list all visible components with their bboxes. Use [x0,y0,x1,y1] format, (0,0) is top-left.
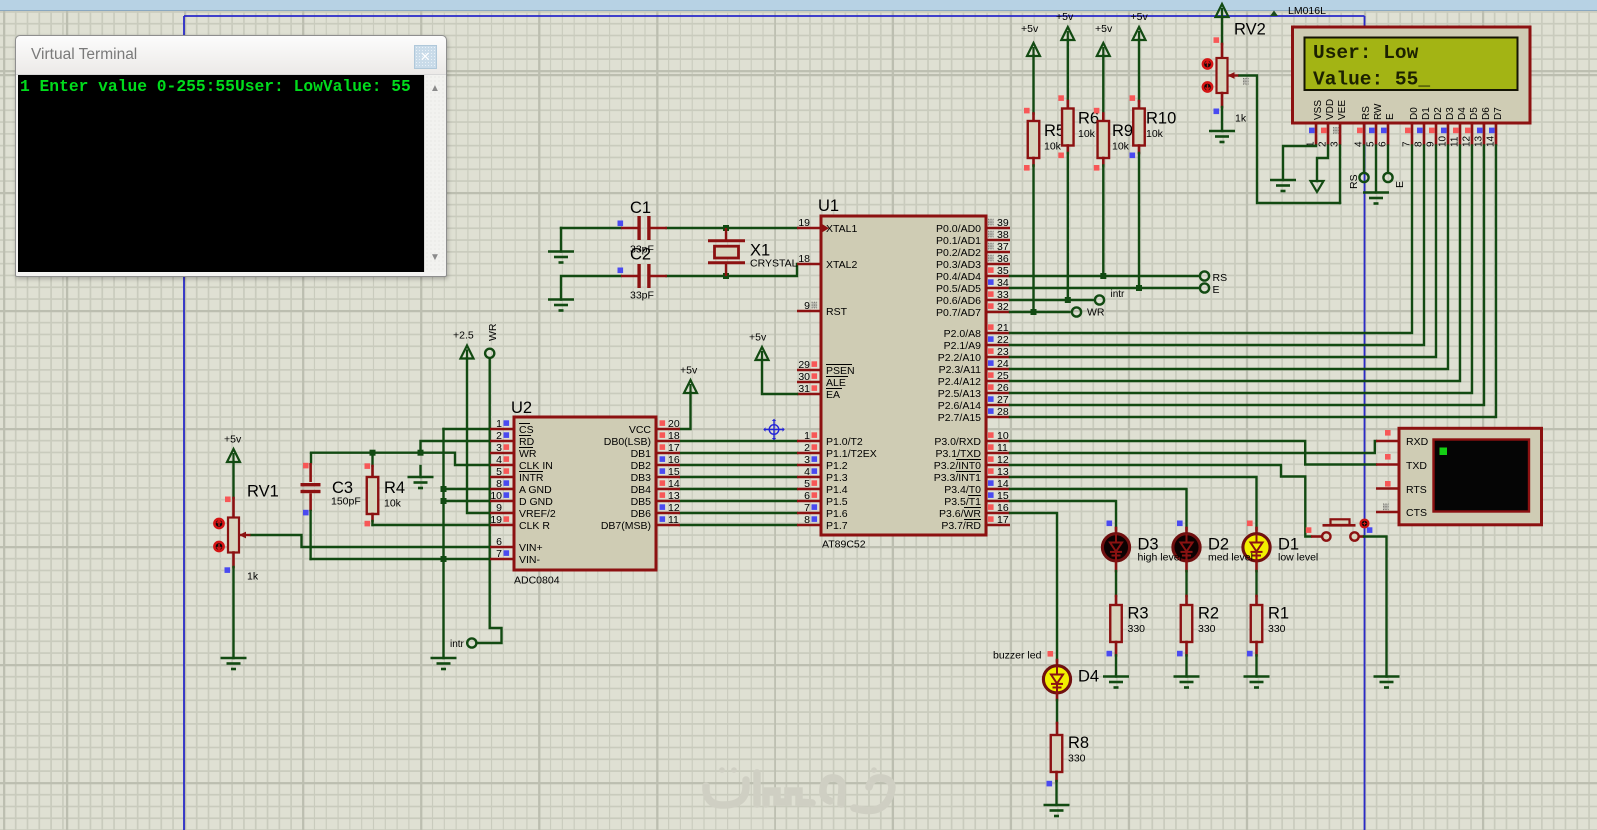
power terminal R9 +5v [1095,23,1113,56]
wire P3.6 to D4 [1010,513,1057,661]
wire RV1 top [232,462,234,498]
svg-text:17: 17 [997,514,1009,526]
svg-text:2: 2 [496,430,502,442]
junction crystal bottom / XTAL2 line [723,273,729,279]
wire LCD D1 to P2.1 [1010,146,1424,346]
mouse crosshair cursor [763,419,784,440]
svg-text:330: 330 [1068,753,1086,765]
U2 left pins [490,418,556,566]
wire VEE down [1339,146,1341,204]
svg-text:RW: RW [1373,103,1384,120]
svg-text:intr: intr [450,639,465,650]
svg-text:+5v: +5v [1056,11,1074,23]
wire LCD D2 to P2.2 [1010,146,1436,358]
svg-text:VDD: VDD [1325,99,1336,120]
svg-text:VCC: VCC [629,424,652,436]
svg-text:32: 32 [997,301,1009,313]
svg-text:P1.7: P1.7 [826,520,848,532]
wire D4 top lead [1056,660,1059,667]
svg-text:C3: C3 [332,479,353,497]
svg-text:R4: R4 [384,479,405,497]
button state square [1306,527,1312,533]
svg-text:33pF: 33pF [630,290,654,302]
wire button to ground [1364,537,1387,677]
resistor R3 [1110,605,1148,643]
power terminal U2 VCC +5v [680,365,698,394]
wire RD branch [421,441,491,453]
svg-text:150pF: 150pF [331,496,361,508]
svg-text:6: 6 [804,490,810,502]
LCD pins [1306,99,1505,147]
svg-text:D7: D7 [1493,107,1504,120]
junction R10 tap [1136,285,1142,291]
svg-text:+5v: +5v [224,434,242,446]
capacitor C2 state square [618,268,624,274]
U1 right pins [934,217,1010,532]
svg-text:RS: RS [1348,174,1360,189]
wire RV2 top [1221,17,1223,44]
svg-text:15: 15 [997,490,1009,502]
svg-text:RXD: RXD [1406,436,1429,448]
LED D2 (D2) [1173,534,1253,564]
wire to U2 A GND [444,488,491,490]
svg-text:9: 9 [804,300,810,312]
svg-text:R2: R2 [1198,605,1219,623]
U1 left pins [797,217,877,532]
ground below U2 [431,658,457,669]
ground RV2 ground [1209,131,1235,142]
svg-text:RV1: RV1 [247,483,279,501]
wire RV2 wiper to LCD VEE [1240,76,1341,204]
svg-text:10: 10 [490,490,502,502]
svg-text:10k: 10k [1044,141,1062,153]
svg-text:CRYSTAL: CRYSTAL [750,258,798,270]
svg-text:P1.2: P1.2 [826,460,848,472]
wire LCD D4 to P2.4 [1010,146,1460,382]
svg-text:1k: 1k [247,571,259,583]
wire VIN- rail [311,558,490,560]
svg-text:4: 4 [496,454,502,466]
svg-text:P2.1/A9: P2.1/A9 [944,340,982,352]
svg-text:E: E [1394,181,1406,188]
wire +2.5 to VREF/2 [467,358,490,513]
svg-text:D6: D6 [1481,107,1492,120]
svg-text:high level: high level [1138,552,1182,564]
wire D1 top lead [1255,528,1258,535]
svg-text:P0.1/AD1: P0.1/AD1 [936,235,981,247]
svg-text:14: 14 [997,478,1009,490]
svg-text:VREF/2: VREF/2 [519,508,556,520]
wire C1 ground stem [560,228,562,252]
svg-text:14: 14 [668,478,680,490]
svg-text:DB2: DB2 [631,460,652,472]
svg-text:DB1: DB1 [631,448,652,460]
svg-text:37: 37 [997,241,1009,253]
wire RS to terminal [1363,146,1365,173]
watermark [706,767,892,810]
svg-text:18: 18 [668,430,680,442]
schematic sheet border [184,16,1365,830]
wire DB7 to P1.7 [680,524,797,526]
origin marker on border [1270,11,1278,17]
svg-text:30: 30 [798,371,810,383]
svg-text:P2.3/A11: P2.3/A11 [939,364,982,376]
svg-text:19: 19 [490,514,502,526]
wire LCD D0 to P2.0 [1010,146,1412,334]
ground R1 ground [1244,677,1270,688]
svg-text:P0.0/AD0: P0.0/AD0 [936,223,981,235]
ground R3 ground [1103,677,1129,688]
wire D4 to R8 [1056,693,1059,701]
D1 top square [1247,521,1253,527]
svg-text:RV2: RV2 [1234,21,1266,39]
svg-text:U2: U2 [511,399,532,417]
svg-text:P3.2/INT0: P3.2/INT0 [934,460,981,472]
wire D3 top lead [1115,528,1118,535]
svg-text:19: 19 [798,217,810,229]
R3 bottom [1115,642,1118,655]
svg-text:35: 35 [997,265,1009,277]
svg-text:26: 26 [997,382,1009,394]
wire E to terminal [1387,146,1389,173]
svg-text:VSS: VSS [1313,100,1324,120]
svg-text:16: 16 [997,502,1009,514]
wire C1 right to U1 XTAL1 [667,227,798,229]
svg-text:P1.6: P1.6 [826,508,848,520]
wire ground to C1 left [561,227,621,229]
terminal RS at LCD [1359,173,1368,182]
resistor R8 [1051,734,1089,772]
svg-text:DB5: DB5 [631,496,652,508]
svg-text:AT89C52: AT89C52 [822,539,866,551]
wire LCD D6 to P2.6 [1010,146,1484,406]
svg-text:P0.4/AD4: P0.4/AD4 [936,271,981,283]
svg-text:E: E [1213,284,1220,296]
svg-text:WR: WR [519,448,537,460]
wire P3.0 to VT TXD [1010,441,1376,465]
svg-text:1: 1 [804,430,810,442]
svg-text:330: 330 [1268,623,1286,635]
svg-text:38: 38 [997,229,1009,241]
wire P3 to D1 [1010,477,1257,529]
R1 bottom [1255,642,1258,655]
ground LCD RW [1363,193,1389,204]
R4 top lead [371,453,373,466]
svg-text:ALE: ALE [826,377,846,389]
power terminal R5 +5v [1021,23,1040,56]
svg-text:24: 24 [997,358,1009,370]
svg-text:LM016L: LM016L [1288,5,1326,17]
svg-text:R9: R9 [1112,122,1133,140]
svg-text:CTS: CTS [1406,507,1427,519]
svg-text:P1.0/T2: P1.0/T2 [826,436,863,448]
svg-text:P3.1/TXD: P3.1/TXD [935,448,981,460]
svg-text:21: 21 [997,322,1009,334]
wire DB4 to P1.4 [680,488,797,490]
resistor R1 [1251,605,1289,643]
svg-text:7: 7 [496,548,502,560]
svg-text:12: 12 [668,502,680,514]
svg-text:buzzer led: buzzer led [993,650,1042,662]
potentiometer RV2 (RV2 potentiometer) [1203,21,1266,125]
wire R4 bottom to CLK R [373,524,491,526]
power terminal +2.5 [453,330,474,359]
svg-text:D GND: D GND [519,496,553,508]
ground R8 ground [1044,805,1070,816]
svg-text:17: 17 [668,442,680,454]
svg-text:P3.3/INT1: P3.3/INT1 [934,472,981,484]
svg-text:DB7(MSB): DB7(MSB) [601,520,651,532]
svg-text:16: 16 [668,454,680,466]
junction A GND tap [441,486,447,492]
svg-text:low level: low level [1278,552,1318,564]
wire DB1 to P1.1 [680,452,797,454]
svg-text:P2.6/A14: P2.6/A14 [938,400,981,412]
svg-text:P1.5: P1.5 [826,496,848,508]
svg-text:12: 12 [997,454,1009,466]
capacitor C1 (33pF ceramic) [621,199,667,256]
svg-text:WR: WR [1087,307,1105,319]
terminal E near LCD nets [1200,283,1209,292]
wire VT RXD to P3.1 [1010,441,1376,453]
svg-text:13: 13 [997,466,1009,478]
svg-text:1: 1 [496,418,502,430]
svg-text:P2.0/A8: P2.0/A8 [944,328,982,340]
svg-text:330: 330 [1198,623,1216,635]
svg-text:intr: intr [1111,289,1126,300]
svg-text:U1: U1 [818,197,839,215]
junction VIN- tap [441,556,447,562]
svg-text:D5: D5 [1469,107,1480,120]
svg-text:DB4: DB4 [631,484,652,496]
svg-text:P2.5/A13: P2.5/A13 [938,388,981,400]
push button [1311,519,1368,540]
svg-text:27: 27 [997,394,1009,406]
terminal WR near U1 [1072,307,1081,316]
junction D GND tap [441,498,447,504]
svg-text:Value: 55_: Value: 55_ [1313,69,1430,91]
D4 top square [1048,651,1054,657]
svg-text:11: 11 [668,514,679,526]
svg-text:8: 8 [804,514,810,526]
svg-text:15: 15 [668,466,680,478]
wire U2 VCC to +5v [680,393,691,430]
wire VSS to ground [1283,146,1316,181]
terminal RS near LCD nets [1200,271,1209,280]
wire P3 to D3 [1010,501,1116,529]
svg-text:22: 22 [997,334,1009,346]
svg-text:PSEN: PSEN [826,365,855,377]
svg-text:P3.6/WR: P3.6/WR [939,508,981,520]
capacitor C3 [301,453,361,511]
svg-text:10k: 10k [384,498,402,510]
resistor R9 [1098,121,1134,158]
svg-text:10k: 10k [1146,128,1164,140]
R5 leads/squares [1032,158,1035,166]
ADC U2 ADC0804 [511,399,656,587]
RV2 wiper state square [1243,79,1249,85]
svg-text:VEE: VEE [1337,100,1348,120]
VT pins [1376,430,1399,512]
wire DB3 to P1.3 [680,476,797,478]
svg-text:31: 31 [798,383,810,395]
svg-text:D3: D3 [1445,107,1456,120]
R9 leads/squares [1102,158,1105,166]
wire P3 to D2 [1010,489,1187,529]
svg-text:+5v: +5v [1131,11,1149,23]
svg-text:+5v: +5v [680,365,698,377]
D2 top square [1177,521,1183,527]
svg-text:P3.7/RD: P3.7/RD [941,520,981,532]
R8 bottom [1055,772,1058,781]
svg-text:D4: D4 [1078,668,1099,686]
svg-text:med level: med level [1208,552,1253,564]
power terminal RV2 +5v [1216,4,1229,17]
junction R6 tap [1065,297,1071,303]
wire DB0 to P1.0 [680,440,797,442]
svg-text:User: Low: User: Low [1313,42,1419,64]
wire R5 chain [1032,56,1034,114]
ground RV1 ground [221,658,247,669]
svg-text:18: 18 [798,253,810,265]
svg-text:R8: R8 [1068,734,1089,752]
svg-text:10k: 10k [1112,141,1130,153]
svg-text:9: 9 [496,502,502,514]
resistor R10 [1133,109,1176,146]
svg-text:8: 8 [496,478,502,490]
svg-text:P2.2/A10: P2.2/A10 [938,352,981,364]
svg-text:36: 36 [997,253,1009,265]
svg-text:P3.5/T1: P3.5/T1 [944,496,981,508]
resistor R4 [367,477,405,514]
svg-text:5: 5 [496,466,502,478]
svg-text:6: 6 [496,536,502,548]
svg-text:10: 10 [997,430,1009,442]
svg-text:11: 11 [997,442,1008,454]
junction crystal top / XTAL1 line [723,225,729,231]
wire P3.2 to button [1010,465,1311,537]
wire P0.5 to E terminal [1010,287,1200,289]
svg-text:ADC0804: ADC0804 [514,575,560,587]
svg-text:XTAL2: XTAL2 [826,259,857,271]
button blue square [1367,527,1373,533]
svg-text:5: 5 [804,478,810,490]
ground LCD VSS [1270,180,1296,191]
junction RD branch tap [418,450,424,456]
wire D2 to R2 [1185,561,1188,572]
capacitor C2 (33pF ceramic) [621,246,667,302]
svg-text:C2: C2 [630,246,651,264]
svg-text:+2.5: +2.5 [453,330,474,342]
terminal WR near U2 [485,349,494,358]
R6 leads/squares [1067,146,1070,154]
svg-text:RS: RS [1213,272,1228,284]
svg-text:+5v: +5v [1021,23,1039,35]
svg-text:13: 13 [668,490,680,502]
wire CS/ground vertical [442,429,444,658]
power terminal RV1 +5v [224,434,242,463]
svg-text:P0.7/AD7: P0.7/AD7 [936,307,981,319]
LED D1 (D1) [1243,534,1318,564]
power terminal R10 +5v [1131,11,1149,40]
svg-text:R1: R1 [1268,605,1289,623]
svg-text:P2.7/A15: P2.7/A15 [938,412,981,424]
svg-text:28: 28 [997,406,1009,418]
capacitor C1 state square [618,221,624,227]
svg-text:DB6: DB6 [631,508,652,520]
svg-text:P1.1/T2EX: P1.1/T2EX [826,448,877,460]
svg-text:CS: CS [519,424,534,436]
D3 top square [1107,521,1113,527]
wire DB6 to P1.6 [680,512,797,514]
svg-text:WR: WR [487,323,499,341]
svg-text:2: 2 [804,442,810,454]
wire DB2 to P1.2 [680,464,797,466]
wire to U2 D GND [444,500,491,502]
svg-text:P2.4/A12: P2.4/A12 [938,376,981,388]
wire C3/R4 top rail to CLK IN [311,453,490,465]
svg-text:DB0(LSB): DB0(LSB) [604,436,651,448]
svg-text:1k: 1k [1235,113,1247,125]
wire R9 chain [1102,56,1104,114]
svg-text:10k: 10k [1078,128,1096,140]
svg-text:D4: D4 [1457,107,1468,120]
svg-text:P1.3: P1.3 [826,472,848,484]
junction R9 tap [1100,273,1106,279]
wire crystal bottom to C2 [667,275,727,277]
wire R10 chain [1138,40,1140,102]
svg-text:CLK R: CLK R [519,520,550,532]
wire EA to +5v [762,360,797,394]
LED D4 (buzzer) [1043,666,1099,693]
resistor R6 [1062,109,1099,146]
power terminal EA +5v [749,332,769,361]
svg-text:34: 34 [997,277,1009,289]
junction R5 tap [1031,309,1037,315]
power terminal R6 +5v [1056,11,1074,40]
svg-text:C1: C1 [630,199,651,217]
ground C1 ground [548,252,574,263]
wire VDD to power [1317,146,1328,182]
svg-text:D2: D2 [1433,107,1444,120]
svg-text:33: 33 [997,289,1009,301]
wire LCD D3 to P2.3 [1010,146,1448,370]
U2 right pins [601,418,680,532]
wire C2 left to ground [561,276,621,300]
resistor R2 [1181,605,1219,643]
svg-text:D0: D0 [1409,107,1420,120]
terminal E at LCD [1383,173,1392,182]
svg-text:RD: RD [519,436,535,448]
svg-text:INTR: INTR [519,472,544,484]
svg-text:CLK IN: CLK IN [519,460,553,472]
terminal intr near U1 [1095,295,1104,304]
svg-text:P3.4/T0: P3.4/T0 [944,484,981,496]
svg-text:+5v: +5v [749,332,767,344]
ground R4 area [408,477,434,488]
virtual terminal component VT [1399,428,1542,525]
LCD display LM016L [1293,27,1531,123]
wire LCD D5 to P2.5 [1010,146,1472,394]
R4 leads/squares [371,514,374,521]
wire R6 chain [1067,40,1069,102]
wire WR terminal / INTR to intr terminal [477,359,502,643]
svg-text:DB3: DB3 [631,472,652,484]
svg-text:RS: RS [1361,106,1372,120]
svg-text:39: 39 [997,217,1009,229]
wire D2 top lead [1185,528,1188,535]
terminal intr near U2 [467,638,476,647]
